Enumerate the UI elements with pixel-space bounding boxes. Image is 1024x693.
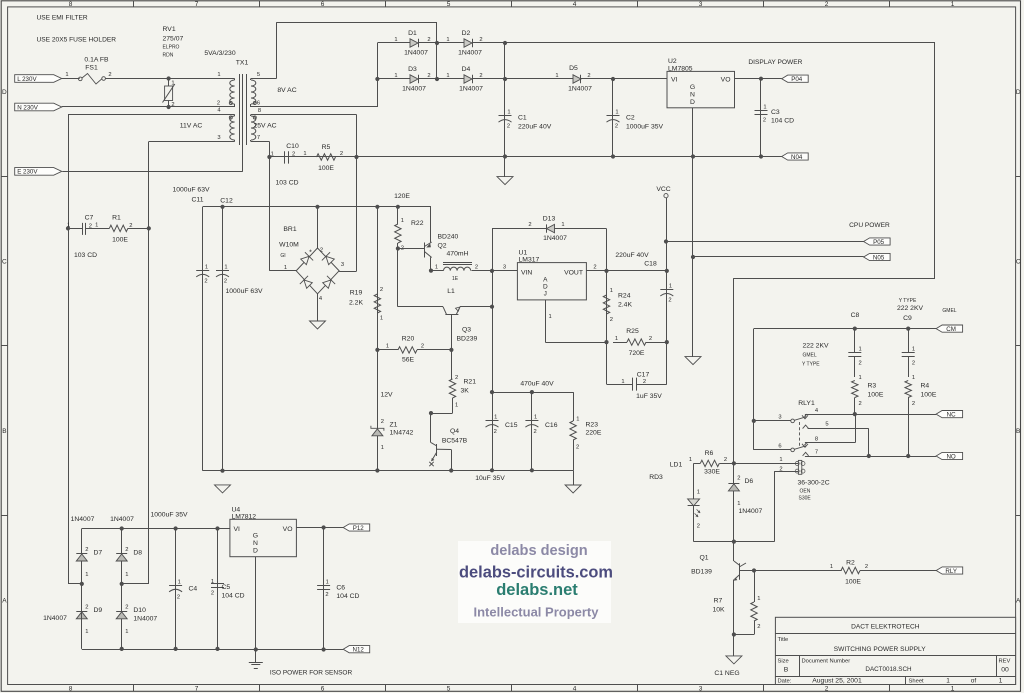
- svg-text:P04: P04: [791, 76, 803, 83]
- svg-text:8: 8: [258, 108, 261, 114]
- svg-text:U4: U4: [232, 507, 241, 514]
- svg-text:1: 1: [555, 73, 558, 79]
- svg-text:C16: C16: [545, 422, 558, 429]
- svg-text:USE 20X5 FUSE HOLDER: USE 20X5 FUSE HOLDER: [37, 37, 117, 44]
- svg-text:2: 2: [610, 317, 613, 323]
- svg-text:10uF 35V: 10uF 35V: [475, 475, 505, 482]
- svg-text:56E: 56E: [402, 357, 415, 364]
- svg-text:1: 1: [912, 347, 915, 353]
- svg-text:103 CD: 103 CD: [275, 180, 298, 187]
- svg-text:1: 1: [763, 105, 766, 111]
- svg-text:D: D: [690, 99, 695, 106]
- svg-text:1: 1: [859, 375, 862, 381]
- svg-text:1: 1: [757, 596, 760, 602]
- svg-text:1N4007: 1N4007: [568, 86, 592, 93]
- svg-text:1: 1: [380, 316, 383, 322]
- svg-text:1: 1: [394, 73, 397, 79]
- svg-text:C7: C7: [85, 215, 94, 222]
- svg-text:2: 2: [587, 73, 590, 79]
- svg-text:2: 2: [494, 429, 497, 435]
- svg-text:6: 6: [257, 101, 260, 107]
- svg-text:Sheet: Sheet: [909, 678, 925, 684]
- svg-text:2: 2: [576, 445, 579, 451]
- svg-text:R21: R21: [464, 379, 477, 386]
- svg-text:R23: R23: [586, 422, 599, 429]
- svg-text:A: A: [2, 597, 7, 604]
- svg-text:2.4K: 2.4K: [618, 302, 632, 309]
- svg-text:1N4007: 1N4007: [133, 616, 157, 623]
- svg-text:2: 2: [763, 118, 766, 124]
- svg-text:6: 6: [321, 1, 325, 8]
- svg-text:W10M: W10M: [279, 242, 299, 249]
- svg-text:Q3: Q3: [462, 327, 471, 334]
- svg-text:RV1: RV1: [163, 26, 176, 33]
- svg-text:1: 1: [85, 629, 88, 635]
- svg-text:2: 2: [593, 265, 596, 271]
- svg-text:P05: P05: [873, 239, 885, 246]
- svg-text:R1: R1: [112, 215, 121, 222]
- svg-text:3: 3: [778, 415, 781, 421]
- svg-text:1: 1: [507, 110, 510, 116]
- svg-text:2: 2: [85, 547, 88, 553]
- svg-text:R2: R2: [846, 560, 855, 567]
- svg-text:2: 2: [325, 592, 328, 598]
- svg-text:100E: 100E: [845, 579, 861, 586]
- svg-text:1: 1: [178, 580, 181, 586]
- svg-text:C2: C2: [626, 115, 635, 122]
- svg-text:REV: REV: [999, 659, 1011, 665]
- svg-text:C8: C8: [851, 312, 860, 319]
- svg-text:2: 2: [724, 457, 727, 463]
- svg-text:330E: 330E: [704, 469, 720, 476]
- svg-text:36-300-2C: 36-300-2C: [798, 480, 830, 487]
- svg-text:2: 2: [479, 73, 482, 79]
- svg-text:1N4007: 1N4007: [458, 50, 482, 57]
- svg-text:TX1: TX1: [236, 60, 249, 67]
- svg-text:104 CD: 104 CD: [771, 118, 794, 125]
- svg-text:2: 2: [912, 361, 915, 367]
- svg-text:1: 1: [737, 501, 740, 507]
- svg-text:275/07: 275/07: [163, 36, 184, 43]
- svg-text:1E: 1E: [452, 276, 459, 282]
- svg-text:1000uF 63V: 1000uF 63V: [172, 187, 210, 194]
- svg-text:2: 2: [479, 37, 482, 43]
- svg-text:1N4007: 1N4007: [71, 516, 95, 523]
- svg-text:1: 1: [326, 580, 329, 586]
- svg-text:RDN: RDN: [163, 53, 174, 59]
- svg-text:3: 3: [699, 686, 703, 693]
- svg-text:Y TYPE: Y TYPE: [899, 298, 917, 304]
- svg-text:B: B: [1016, 428, 1020, 435]
- svg-text:1: 1: [67, 223, 70, 229]
- svg-text:ELPRO: ELPRO: [163, 45, 180, 51]
- svg-text:BC547B: BC547B: [442, 438, 468, 445]
- svg-text:C6: C6: [336, 585, 345, 592]
- svg-text:2: 2: [668, 298, 671, 304]
- svg-text:4: 4: [573, 686, 577, 693]
- svg-text:1: 1: [65, 72, 68, 78]
- svg-text:1: 1: [494, 415, 497, 421]
- svg-text:BD240: BD240: [438, 234, 459, 241]
- svg-text:8: 8: [69, 686, 73, 693]
- svg-text:VO: VO: [721, 77, 731, 84]
- svg-text:2: 2: [177, 595, 180, 601]
- svg-text:Date:: Date:: [778, 678, 792, 684]
- svg-text:2: 2: [649, 336, 652, 342]
- svg-text:1N4007: 1N4007: [404, 50, 428, 57]
- svg-text:Intellectual Property: Intellectual Property: [474, 605, 600, 620]
- svg-text:3: 3: [341, 262, 344, 268]
- svg-text:VCC: VCC: [656, 186, 670, 193]
- svg-text:220E: 220E: [586, 430, 602, 437]
- svg-text:1000uF 35V: 1000uF 35V: [626, 124, 664, 131]
- svg-text:1: 1: [669, 284, 672, 290]
- svg-text:3: 3: [699, 1, 703, 8]
- svg-text:120E: 120E: [394, 193, 410, 200]
- svg-text:LM7805: LM7805: [668, 66, 693, 73]
- svg-text:1: 1: [401, 218, 404, 224]
- svg-text:C: C: [2, 259, 7, 266]
- svg-text:2: 2: [912, 401, 915, 407]
- svg-text:ISO POWER FOR SENSOR: ISO POWER FOR SENSOR: [270, 670, 353, 677]
- svg-text:SWITCHING POWER SUPPLY: SWITCHING POWER SUPPLY: [834, 646, 926, 653]
- svg-text:VOUT: VOUT: [564, 270, 583, 277]
- svg-text:1N4007: 1N4007: [110, 516, 134, 523]
- svg-text:1: 1: [211, 579, 214, 585]
- svg-text:R25: R25: [626, 328, 639, 335]
- svg-text:1: 1: [394, 37, 397, 43]
- svg-text:D13: D13: [543, 216, 556, 223]
- svg-text:of: of: [971, 677, 977, 684]
- svg-text:2: 2: [129, 223, 132, 229]
- svg-text:1: 1: [615, 110, 618, 116]
- svg-text:DACT0018.SCH: DACT0018.SCH: [865, 666, 912, 673]
- svg-text:12V: 12V: [381, 392, 394, 399]
- svg-text:103 CD: 103 CD: [74, 252, 97, 259]
- svg-text:RD3: RD3: [649, 474, 663, 481]
- svg-text:100E: 100E: [318, 165, 334, 172]
- svg-text:3: 3: [503, 265, 506, 271]
- svg-text:BD239: BD239: [457, 336, 478, 343]
- svg-text:1: 1: [534, 415, 537, 421]
- svg-text:3: 3: [217, 135, 220, 141]
- svg-text:2: 2: [859, 361, 862, 367]
- svg-text:D5: D5: [569, 65, 578, 72]
- svg-text:C: C: [1016, 259, 1021, 266]
- svg-text:2: 2: [427, 73, 430, 79]
- svg-text:8: 8: [815, 437, 818, 443]
- svg-text:VI: VI: [234, 526, 241, 533]
- svg-text:D9: D9: [94, 607, 103, 614]
- svg-text:D6: D6: [745, 478, 754, 485]
- svg-text:A: A: [543, 277, 548, 284]
- svg-text:470uF 40V: 470uF 40V: [520, 381, 554, 388]
- svg-text:delabs.net: delabs.net: [496, 581, 578, 599]
- svg-text:2: 2: [380, 287, 383, 293]
- svg-text:C17: C17: [637, 372, 650, 379]
- svg-text:2: 2: [421, 344, 424, 350]
- svg-text:DACT ELEKTROTECH: DACT ELEKTROTECH: [851, 624, 920, 631]
- svg-text:R19: R19: [350, 290, 363, 297]
- svg-text:NO: NO: [946, 453, 955, 460]
- svg-text:1: 1: [455, 403, 458, 409]
- svg-text:D: D: [1016, 89, 1021, 96]
- svg-text:N05: N05: [873, 254, 885, 261]
- svg-text:1N4007: 1N4007: [459, 86, 483, 93]
- svg-text:D1: D1: [408, 30, 417, 37]
- svg-text:1: 1: [951, 686, 955, 693]
- svg-text:0.1A FB: 0.1A FB: [84, 57, 109, 64]
- svg-text:1: 1: [615, 336, 618, 342]
- svg-text:N: N: [253, 540, 258, 547]
- svg-text:11V AC: 11V AC: [180, 123, 203, 130]
- svg-text:C1: C1: [518, 115, 527, 122]
- svg-text:C1 NEG: C1 NEG: [714, 670, 739, 677]
- svg-text:R5: R5: [322, 144, 331, 151]
- svg-text:Q2: Q2: [438, 243, 447, 250]
- svg-text:D: D: [253, 548, 258, 555]
- svg-text:N12: N12: [353, 647, 365, 654]
- svg-text:delabs design: delabs design: [490, 543, 587, 559]
- svg-text:1: 1: [171, 81, 174, 87]
- svg-text:A: A: [1016, 597, 1021, 604]
- svg-text:100E: 100E: [868, 392, 884, 399]
- svg-text:2: 2: [507, 124, 510, 130]
- svg-text:4: 4: [573, 1, 577, 8]
- svg-text:2: 2: [427, 37, 430, 43]
- svg-text:1uF 35V: 1uF 35V: [636, 393, 662, 400]
- svg-text:1N4007: 1N4007: [543, 235, 567, 242]
- svg-text:2: 2: [171, 102, 174, 108]
- svg-text:1: 1: [610, 288, 613, 294]
- svg-text:C3: C3: [771, 109, 780, 116]
- svg-text:5: 5: [825, 422, 828, 428]
- svg-text:2: 2: [615, 124, 618, 130]
- svg-text:5VA/3/230: 5VA/3/230: [204, 50, 235, 57]
- svg-text:1: 1: [85, 572, 88, 578]
- svg-text:VIN: VIN: [521, 270, 532, 277]
- svg-text:B: B: [784, 667, 789, 674]
- svg-text:100E: 100E: [921, 392, 937, 399]
- svg-text:R6: R6: [705, 450, 714, 457]
- svg-text:1000uF 35V: 1000uF 35V: [150, 512, 188, 519]
- svg-text:LM317: LM317: [519, 257, 540, 264]
- svg-text:D: D: [2, 89, 7, 96]
- svg-text:1: 1: [951, 1, 955, 8]
- svg-text:1: 1: [549, 314, 552, 320]
- svg-text:3K: 3K: [461, 388, 470, 395]
- svg-text:1N4007: 1N4007: [739, 508, 763, 515]
- svg-text:2: 2: [528, 222, 531, 228]
- svg-text:C12: C12: [220, 198, 233, 205]
- svg-text:D8: D8: [133, 550, 142, 557]
- svg-text:NC: NC: [947, 411, 956, 418]
- svg-text:1: 1: [689, 457, 692, 463]
- svg-text:August 25, 2001: August 25, 2001: [812, 677, 862, 684]
- svg-text:1: 1: [779, 457, 782, 463]
- svg-text:2: 2: [825, 686, 829, 693]
- svg-text:1: 1: [446, 73, 449, 79]
- svg-text:1000uF 63V: 1000uF 63V: [225, 288, 263, 295]
- svg-text:2: 2: [475, 265, 478, 271]
- svg-text:Z1: Z1: [390, 422, 398, 429]
- svg-text:10K: 10K: [712, 607, 725, 614]
- svg-text:1N4007: 1N4007: [43, 615, 67, 622]
- svg-text:8: 8: [69, 1, 73, 8]
- svg-text:1: 1: [95, 223, 98, 229]
- svg-text:00: 00: [1001, 667, 1009, 674]
- svg-text:222 2KV: 222 2KV: [897, 305, 924, 312]
- svg-text:6: 6: [778, 444, 781, 450]
- svg-text:D2: D2: [462, 30, 471, 37]
- svg-text:E 230V: E 230V: [17, 169, 38, 176]
- svg-text:BD139: BD139: [691, 569, 712, 576]
- svg-text:U1: U1: [519, 250, 528, 257]
- svg-text:1: 1: [217, 72, 220, 78]
- svg-text:L 230V: L 230V: [17, 76, 37, 83]
- svg-text:2: 2: [204, 279, 207, 285]
- svg-text:C18: C18: [644, 261, 657, 268]
- svg-text:D7: D7: [94, 550, 103, 557]
- svg-text:25V AC: 25V AC: [253, 123, 276, 130]
- svg-text:1: 1: [435, 265, 438, 271]
- svg-text:U2: U2: [668, 58, 677, 65]
- svg-text:2: 2: [125, 547, 128, 553]
- svg-text:C4: C4: [189, 586, 198, 593]
- svg-text:D10: D10: [133, 607, 146, 614]
- svg-text:Y TYPE: Y TYPE: [802, 362, 820, 368]
- svg-text:G: G: [253, 533, 258, 540]
- svg-text:P12: P12: [353, 525, 365, 532]
- svg-text:7: 7: [815, 450, 818, 456]
- svg-text:FS1: FS1: [85, 65, 98, 72]
- svg-text:J: J: [544, 291, 547, 298]
- svg-text:2: 2: [217, 101, 220, 107]
- svg-text:7: 7: [257, 135, 260, 141]
- svg-text:2: 2: [737, 476, 740, 482]
- svg-text:2: 2: [643, 379, 646, 385]
- svg-text:2.2K: 2.2K: [349, 300, 363, 307]
- svg-text:1: 1: [999, 677, 1003, 684]
- svg-text:Document Number: Document Number: [802, 659, 851, 665]
- svg-text:1: 1: [446, 37, 449, 43]
- svg-text:2: 2: [455, 375, 458, 381]
- svg-text:1: 1: [205, 265, 208, 271]
- svg-text:VI: VI: [671, 77, 678, 84]
- svg-text:R22: R22: [411, 220, 424, 227]
- svg-text:2: 2: [108, 72, 111, 78]
- svg-text:D4: D4: [462, 66, 471, 73]
- svg-text:RLY1: RLY1: [798, 400, 815, 407]
- svg-text:B: B: [2, 428, 6, 435]
- svg-text:USE EMI FILTER: USE EMI FILTER: [37, 15, 88, 22]
- svg-text:G: G: [690, 84, 695, 91]
- svg-text:2: 2: [533, 429, 536, 435]
- svg-text:R4: R4: [921, 383, 930, 390]
- svg-text:5: 5: [447, 686, 451, 693]
- svg-text:1: 1: [561, 222, 564, 228]
- svg-text:7: 7: [195, 1, 199, 8]
- svg-text:1: 1: [859, 347, 862, 353]
- svg-text:1: 1: [946, 677, 950, 684]
- svg-text:GI: GI: [280, 253, 285, 259]
- svg-text:S30E: S30E: [799, 496, 812, 502]
- svg-text:1: 1: [386, 344, 389, 350]
- svg-text:2: 2: [125, 605, 128, 611]
- svg-text:2: 2: [89, 224, 92, 230]
- svg-text:2: 2: [224, 279, 227, 285]
- svg-text:2: 2: [211, 591, 214, 597]
- svg-text:6: 6: [321, 686, 325, 693]
- svg-text:5: 5: [257, 72, 260, 78]
- svg-text:C10: C10: [286, 143, 299, 150]
- svg-text:2: 2: [85, 605, 88, 611]
- svg-text:*: *: [309, 250, 312, 257]
- svg-text:220uF 40V: 220uF 40V: [518, 124, 552, 131]
- svg-text:222 2KV: 222 2KV: [802, 343, 829, 350]
- svg-text:GMEL: GMEL: [803, 353, 817, 359]
- svg-text:N 230V: N 230V: [17, 104, 39, 111]
- svg-text:BR1: BR1: [283, 226, 296, 233]
- svg-text:104 CD: 104 CD: [222, 593, 245, 600]
- svg-text:Title: Title: [778, 637, 789, 643]
- svg-text:D: D: [543, 284, 548, 291]
- svg-text:CPU POWER: CPU POWER: [849, 222, 890, 229]
- svg-text:C15: C15: [505, 422, 518, 429]
- svg-text:R3: R3: [868, 383, 877, 390]
- svg-text:1: 1: [381, 445, 384, 451]
- svg-text:1: 1: [912, 375, 915, 381]
- svg-text:D3: D3: [408, 66, 417, 73]
- svg-text:470mH: 470mH: [447, 251, 469, 258]
- svg-text:N04: N04: [791, 154, 803, 161]
- svg-text:CM: CM: [946, 326, 956, 333]
- svg-text:1: 1: [125, 629, 128, 635]
- svg-text:2: 2: [757, 624, 760, 630]
- svg-text:1: 1: [224, 265, 227, 271]
- svg-text:2: 2: [865, 564, 868, 570]
- svg-text:104 CD: 104 CD: [336, 593, 359, 600]
- svg-text:Q4: Q4: [450, 428, 459, 435]
- svg-text:OEN: OEN: [800, 489, 811, 495]
- svg-text:1: 1: [125, 572, 128, 578]
- svg-text:Size: Size: [778, 659, 789, 665]
- svg-text:C11: C11: [192, 197, 204, 204]
- svg-text:5: 5: [447, 1, 451, 8]
- svg-text:2: 2: [697, 524, 700, 530]
- svg-text:8V AC: 8V AC: [277, 87, 296, 94]
- svg-text:C5: C5: [222, 584, 231, 591]
- svg-text:R7: R7: [714, 598, 723, 605]
- svg-text:100E: 100E: [112, 237, 128, 244]
- svg-text:R20: R20: [402, 336, 415, 343]
- svg-text:N: N: [690, 92, 695, 99]
- svg-text:RLY: RLY: [945, 568, 957, 575]
- svg-text:1: 1: [697, 490, 700, 496]
- svg-text:C9: C9: [903, 315, 912, 322]
- svg-text:1: 1: [830, 564, 833, 570]
- svg-text:220uF 40V: 220uF 40V: [615, 252, 649, 259]
- svg-text:Q1: Q1: [699, 555, 708, 562]
- svg-text:L1: L1: [447, 288, 455, 295]
- svg-text:1: 1: [576, 417, 579, 423]
- svg-text:1N4742: 1N4742: [390, 430, 414, 437]
- svg-text:LD1: LD1: [670, 462, 683, 469]
- svg-text:720E: 720E: [629, 350, 645, 357]
- svg-text:1N4007: 1N4007: [402, 86, 426, 93]
- svg-text:delabs-circuits.com: delabs-circuits.com: [459, 564, 613, 582]
- svg-text:R24: R24: [618, 293, 631, 300]
